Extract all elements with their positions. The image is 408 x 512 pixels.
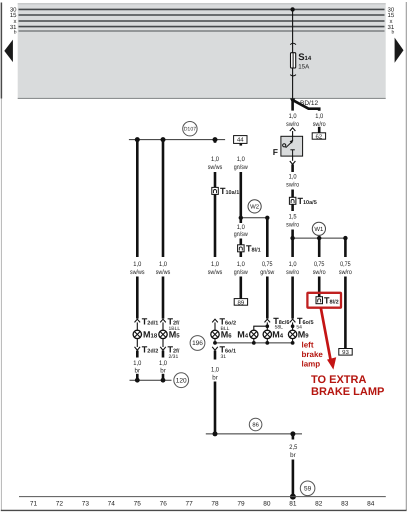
wire col81 xyxy=(291,277,294,319)
connector T2f/2 xyxy=(160,345,180,361)
node dot 86 left xyxy=(213,431,218,436)
svg-text:15A: 15A xyxy=(298,64,310,71)
stub M4 left to bus xyxy=(253,339,255,343)
svg-text:2,5: 2,5 xyxy=(289,444,297,451)
wire col81 to 59 xyxy=(292,460,295,497)
stub col75 to ground xyxy=(136,374,139,380)
svg-text:gn/sw: gn/sw xyxy=(234,269,248,276)
svg-text:BRAKE LAMP: BRAKE LAMP xyxy=(311,386,384,398)
svg-text:M18: M18 xyxy=(143,330,158,340)
connector T8l/2 xyxy=(316,296,339,306)
svg-text:83: 83 xyxy=(341,501,349,508)
node dot col82 xyxy=(317,236,321,240)
node dot col78 xyxy=(213,137,218,142)
node dot M4 left xyxy=(252,341,256,345)
left feeder line xyxy=(129,139,225,141)
node dot col80 xyxy=(265,216,269,220)
svg-text:b: b xyxy=(392,30,395,36)
node on bus 30 xyxy=(290,7,294,11)
svg-text:0,75: 0,75 xyxy=(262,261,273,268)
connector chevron below F xyxy=(290,161,296,164)
svg-text:T6o/2: T6o/2 xyxy=(220,316,237,326)
wire to lamp M4 right xyxy=(266,322,268,330)
svg-text:44: 44 xyxy=(237,137,244,144)
svg-text:br: br xyxy=(135,367,141,374)
svg-text:T6o/1: T6o/1 xyxy=(220,345,237,355)
wire col83 xyxy=(344,238,347,257)
node dot col80 branch xyxy=(266,324,270,328)
svg-text:0,75: 0,75 xyxy=(314,261,325,268)
label 1,0 br col75 xyxy=(133,360,141,375)
bus band xyxy=(18,4,386,99)
lamp M6 xyxy=(211,330,232,340)
branch to lamp M4 left xyxy=(254,326,267,330)
svg-text:76: 76 xyxy=(160,501,168,508)
svg-text:sw/ro: sw/ro xyxy=(339,269,352,276)
bus bar 15 xyxy=(19,14,385,16)
svg-text:72: 72 xyxy=(56,501,64,508)
svg-text:1,0: 1,0 xyxy=(211,156,219,163)
arrow right xyxy=(395,38,404,63)
bus labels left xyxy=(10,7,17,36)
svg-text:1,0: 1,0 xyxy=(159,360,167,367)
label 1,0 sw/ws col78 xyxy=(208,156,223,171)
wire col80 xyxy=(266,218,269,257)
wire col78 down xyxy=(214,382,217,434)
wire col78 xyxy=(214,194,217,257)
svg-text:F: F xyxy=(273,147,278,157)
stub below T2f/2 xyxy=(162,351,165,358)
svg-text:M6: M6 xyxy=(221,330,233,340)
node dot M9 xyxy=(291,341,295,345)
svg-text:1,0: 1,0 xyxy=(211,367,219,374)
wire col75 xyxy=(136,277,139,319)
stub M9 to bus xyxy=(292,339,294,343)
svg-text:196: 196 xyxy=(192,340,203,347)
svg-text:sw/ws: sw/ws xyxy=(208,269,223,276)
wire col76 xyxy=(162,140,165,257)
stub below 86 node xyxy=(292,434,295,440)
svg-text:b: b xyxy=(14,30,17,36)
connector T8l/1 xyxy=(238,244,261,254)
lamp M9 xyxy=(288,330,309,340)
label 1,0 sw/ws col76 xyxy=(156,261,171,276)
ruler numbers xyxy=(30,501,375,508)
svg-text:84: 84 xyxy=(367,501,375,508)
ground node 86 xyxy=(249,418,262,431)
svg-text:74: 74 xyxy=(108,501,116,508)
stub M6 to bus xyxy=(214,339,216,343)
node W2 xyxy=(248,200,261,213)
svg-text:2/31: 2/31 xyxy=(169,354,179,360)
bus bar x xyxy=(19,20,385,22)
bus bar b xyxy=(19,30,385,32)
label 1,0 br col76 xyxy=(159,360,167,375)
svg-text:1,0: 1,0 xyxy=(289,174,297,181)
wire col83 xyxy=(344,277,347,349)
label 2,5 br xyxy=(289,444,297,459)
label 1,0 sw/ws col78 xyxy=(208,261,223,276)
wire col76 xyxy=(162,277,165,319)
node dot col83 xyxy=(343,236,347,240)
svg-text:W1: W1 xyxy=(314,226,324,233)
label 0,75 sw/ro col83 xyxy=(339,261,352,276)
connector T2d/1 xyxy=(135,316,159,326)
svg-text:86: 86 xyxy=(252,422,258,429)
label 1,0 sw/ro col81 top xyxy=(286,113,299,128)
node dot col81 xyxy=(290,236,294,240)
svg-text:1,0: 1,0 xyxy=(289,261,297,268)
junction line W1 xyxy=(293,237,346,239)
label 1,0 sw/ro col81 xyxy=(286,261,299,276)
svg-text:81: 81 xyxy=(289,501,297,508)
svg-text:T8l/2: T8l/2 xyxy=(324,296,339,306)
label 1,0 sw/ro below F xyxy=(286,174,299,189)
red highlight box xyxy=(307,293,341,308)
label 1,0 gn/sw under W2 xyxy=(234,224,248,238)
box 93 xyxy=(339,349,352,357)
svg-text:sw/ro: sw/ro xyxy=(313,269,326,276)
svg-text:1,0: 1,0 xyxy=(159,261,167,268)
wire to lamp M9 xyxy=(292,322,294,330)
svg-text:left: left xyxy=(302,341,314,350)
wire down from BD/12 xyxy=(291,98,294,110)
connector T6o/2 xyxy=(212,316,236,332)
svg-text:1,0: 1,0 xyxy=(237,224,245,231)
wire col79 xyxy=(240,143,243,145)
label 0,75 gn/sw col80 xyxy=(260,261,274,276)
svg-text:sw/ro: sw/ro xyxy=(286,181,299,188)
svg-text:93: 93 xyxy=(342,349,349,356)
red note left brake lamp xyxy=(302,341,324,369)
svg-text:gn/sw: gn/sw xyxy=(234,231,248,238)
node D107 xyxy=(183,122,197,136)
label 1,5 sw/ro xyxy=(286,214,299,229)
lamp ground bus xyxy=(215,342,293,344)
label 0,75 sw/ro col82 xyxy=(313,261,326,276)
ground bus 120 xyxy=(130,379,172,381)
wire to lamp M18 xyxy=(136,322,138,330)
svg-text:gn/sw: gn/sw xyxy=(260,269,274,276)
ground bus 86 xyxy=(206,433,302,435)
connector T6o/5 xyxy=(290,316,314,331)
svg-text:D107: D107 xyxy=(184,127,197,133)
svg-text:1,0: 1,0 xyxy=(315,113,323,120)
wire col82 xyxy=(318,277,321,297)
lamp M18 xyxy=(133,330,158,340)
ground node 120 xyxy=(174,373,189,388)
wire to lamp M5 xyxy=(162,322,164,330)
node dot ground col76 xyxy=(161,378,166,383)
svg-text:sw/ws: sw/ws xyxy=(156,269,171,276)
page border left xyxy=(0,3,2,99)
svg-text:T2d/1: T2d/1 xyxy=(142,316,159,326)
svg-text:1,0: 1,0 xyxy=(133,261,141,268)
svg-text:sw/ws: sw/ws xyxy=(208,164,223,171)
svg-text:80: 80 xyxy=(263,501,271,508)
svg-text:78: 78 xyxy=(211,501,219,508)
wire col82 xyxy=(318,238,321,257)
svg-text:1,0: 1,0 xyxy=(237,261,245,268)
svg-text:sw/ro: sw/ro xyxy=(286,269,299,276)
svg-text:sw/ws: sw/ws xyxy=(130,269,145,276)
box 62 xyxy=(312,133,325,141)
svg-text:1,0: 1,0 xyxy=(289,113,297,120)
stub M4 right to bus xyxy=(266,339,268,343)
svg-text:M9: M9 xyxy=(298,330,310,340)
connector T8c/6 xyxy=(265,316,290,331)
label 1,0 sw/ws col75 xyxy=(130,261,145,276)
svg-text:1,0: 1,0 xyxy=(237,156,245,163)
svg-text:1,5: 1,5 xyxy=(289,214,297,221)
wire branch diagonal to col82 xyxy=(293,100,319,111)
label 1,0 gn/sw col79 xyxy=(234,261,248,276)
wire col80 xyxy=(266,277,269,319)
wire col79 xyxy=(240,172,243,223)
stub below T6o/1 xyxy=(214,351,217,360)
svg-text:T8l/1: T8l/1 xyxy=(246,244,261,254)
wire col81 xyxy=(291,190,294,198)
svg-text:TO EXTRA: TO EXTRA xyxy=(311,374,366,386)
connector chevron into F xyxy=(290,128,296,131)
arrow left xyxy=(4,40,13,63)
label 1,0 br col78 xyxy=(211,367,219,382)
page border right xyxy=(405,2,407,510)
wire into F xyxy=(292,131,294,136)
wire col79 to 89 xyxy=(240,277,243,299)
bus bar 31 xyxy=(19,26,385,28)
svg-text:1,0: 1,0 xyxy=(211,261,219,268)
svg-text:82: 82 xyxy=(315,501,323,508)
svg-text:brake: brake xyxy=(302,350,324,359)
junction line W2 xyxy=(241,217,267,219)
stub to 62 box xyxy=(318,127,321,133)
svg-text:71: 71 xyxy=(30,501,38,508)
node dot ground col75 xyxy=(135,378,140,383)
stub below T2d/2 xyxy=(136,351,139,358)
svg-text:59: 59 xyxy=(304,486,312,493)
wire col79 xyxy=(240,252,243,257)
lamp M4 left xyxy=(237,330,258,340)
wire col75 xyxy=(136,140,139,257)
node dot M4 right xyxy=(265,341,269,345)
svg-text:77: 77 xyxy=(185,501,193,508)
node dot 59 xyxy=(290,494,296,500)
wire fuse to band bottom xyxy=(292,68,294,98)
node dot col75 xyxy=(135,137,140,142)
node dot col81 branch xyxy=(291,324,295,328)
node 196 xyxy=(190,336,205,351)
svg-text:sw/ro: sw/ro xyxy=(286,221,299,228)
svg-text:M4: M4 xyxy=(237,330,249,340)
svg-text:br: br xyxy=(290,452,296,459)
svg-text:0,75: 0,75 xyxy=(340,261,351,268)
svg-text:T10a/5: T10a/5 xyxy=(298,196,317,206)
node dot col79 xyxy=(239,216,243,220)
wire col78 xyxy=(214,172,217,187)
box 44 xyxy=(234,136,247,144)
lamp M4 right xyxy=(263,330,284,340)
svg-text:73: 73 xyxy=(82,501,90,508)
wire col79 xyxy=(240,239,243,245)
svg-text:31: 31 xyxy=(221,354,227,360)
connector T10a/1 xyxy=(212,186,239,196)
wire fuse feed xyxy=(292,9,294,52)
wire col81 xyxy=(291,230,294,258)
wire to lamp M6 xyxy=(214,322,216,330)
svg-text:75: 75 xyxy=(134,501,142,508)
svg-text:T2d/2: T2d/2 xyxy=(142,345,159,355)
svg-text:M4: M4 xyxy=(272,330,284,340)
svg-text:br: br xyxy=(212,374,218,381)
red note TO EXTRA BRAKE LAMP xyxy=(311,374,384,398)
red arrow xyxy=(321,308,336,370)
wire below M18 xyxy=(136,339,138,347)
svg-text:T2f/: T2f/ xyxy=(168,345,180,355)
connector T2f/1 xyxy=(160,316,180,332)
label 1,0 sw/ro col82 top xyxy=(313,113,326,128)
bus bar 30 xyxy=(19,8,385,10)
wire below F xyxy=(292,156,294,161)
node dot 86 right xyxy=(290,431,295,436)
ground node 59 xyxy=(300,481,315,496)
svg-text:1,0: 1,0 xyxy=(133,360,141,367)
brake light switch F xyxy=(273,136,303,157)
lamp M5 xyxy=(159,330,180,340)
stub col76 to ground xyxy=(162,374,165,380)
harness junction BD/12 xyxy=(290,98,319,107)
svg-text:W2: W2 xyxy=(250,204,260,211)
svg-text:T2f/: T2f/ xyxy=(168,316,180,326)
box 89 xyxy=(234,299,247,307)
fuse S14 xyxy=(290,43,312,76)
svg-text:br: br xyxy=(160,367,166,374)
node dot col76 xyxy=(161,137,166,142)
bus labels right xyxy=(388,7,395,36)
connector T10a/5 xyxy=(289,196,316,206)
connector T2d/2 xyxy=(135,345,159,355)
label 1,0 gn/sw col79 xyxy=(234,156,248,171)
ruler line xyxy=(19,496,386,498)
connector T6o/1 xyxy=(212,345,236,361)
svg-text:79: 79 xyxy=(237,501,245,508)
svg-text:lamp: lamp xyxy=(302,360,321,369)
svg-text:gn/sw: gn/sw xyxy=(234,164,248,171)
node dot M6 xyxy=(213,341,217,345)
svg-text:89: 89 xyxy=(238,299,245,306)
wire col78 stub xyxy=(214,140,217,143)
page border bottom xyxy=(1,509,407,511)
wire col81 xyxy=(291,204,294,211)
svg-text:120: 120 xyxy=(176,377,187,384)
wire below M5 xyxy=(162,339,164,347)
svg-text:T10a/1: T10a/1 xyxy=(220,186,239,196)
wire col81 xyxy=(291,164,294,172)
svg-text:62: 62 xyxy=(316,133,323,140)
node W1 xyxy=(312,222,325,235)
